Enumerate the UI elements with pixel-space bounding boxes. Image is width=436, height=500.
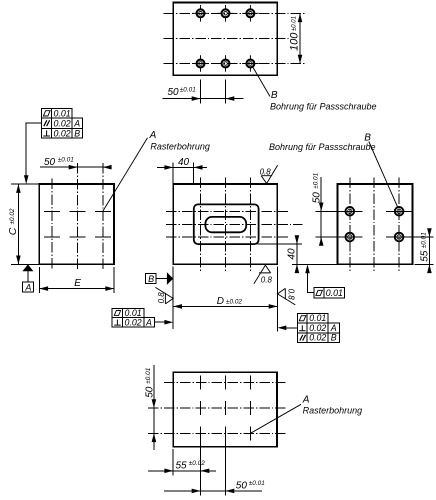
dimension 100 ±0.01 vertical <box>289 13 303 63</box>
svg-text:±0.01: ±0.01 <box>420 232 427 248</box>
svg-text:E: E <box>74 278 81 289</box>
hole top row 1 <box>192 5 209 22</box>
dimension 55 ±0.01 right <box>420 228 432 273</box>
centerline row 1 bottom view <box>164 382 286 384</box>
flatness symbol <box>114 311 120 316</box>
hole right view top right <box>395 207 404 216</box>
centerline col 2 right view <box>373 178 375 272</box>
svg-text:0.8: 0.8 <box>157 292 166 304</box>
svg-text:±0.01: ±0.01 <box>291 16 297 31</box>
centerline row 2 front <box>166 236 288 238</box>
centerline col 2 <box>77 163 79 270</box>
row 1 extension left <box>316 210 363 212</box>
dimension 40 top <box>157 157 207 183</box>
centerline middle row <box>164 37 291 39</box>
svg-text:C: C <box>7 227 19 235</box>
svg-text:Bohrung für Passschraube: Bohrung für Passschraube <box>270 101 377 111</box>
svg-text:Bohrung für Passschraube: Bohrung für Passschraube <box>269 142 376 152</box>
svg-text:A: A <box>145 317 152 327</box>
svg-text:0.02: 0.02 <box>309 323 326 333</box>
centerline bottom hole row <box>164 63 305 65</box>
perpendicularity symbol <box>299 325 306 331</box>
svg-text:0.01: 0.01 <box>309 313 326 323</box>
hole bottom row 1 <box>192 55 209 72</box>
svg-text:50: 50 <box>168 87 180 98</box>
hole bottom row 2 <box>217 55 234 72</box>
svg-text:0.02: 0.02 <box>54 128 71 138</box>
leader B right view <box>269 132 398 207</box>
centerline top hole row <box>164 12 305 14</box>
svg-text:A: A <box>73 119 80 129</box>
hole right view bottom right <box>395 233 404 242</box>
centerline row 2 bottom view <box>148 407 286 409</box>
GD&amp;T frame bottom right: flatness 0.01 / perpendicularity 0.02 A / parallelism 0.02 B <box>278 313 340 343</box>
svg-text:55: 55 <box>176 460 188 471</box>
surface finish 0.8 top right <box>260 165 278 183</box>
svg-text:A: A <box>330 323 337 333</box>
svg-text:Rasterbohrung: Rasterbohrung <box>303 405 363 415</box>
svg-text:55: 55 <box>420 250 431 262</box>
svg-text:40: 40 <box>287 248 298 260</box>
perpendicularity symbol <box>114 320 121 326</box>
svg-text:0.01: 0.01 <box>54 108 71 118</box>
flatness symbol <box>299 316 306 321</box>
top view outline <box>173 3 277 76</box>
svg-text:±0.02: ±0.02 <box>189 460 205 467</box>
row 2 segment and extension right <box>386 236 434 238</box>
extension lines below bottom view <box>172 449 174 475</box>
svg-text:±0.01: ±0.01 <box>313 172 320 188</box>
svg-text:B: B <box>331 333 337 343</box>
svg-text:0.8: 0.8 <box>286 289 295 301</box>
cross ticks row 1 <box>44 210 111 212</box>
centerline col 1 right view <box>349 178 351 272</box>
dimension 55 ±0.02 <box>148 460 216 473</box>
svg-text:0.01: 0.01 <box>326 288 343 298</box>
svg-text:D: D <box>217 296 224 307</box>
datum B <box>146 272 174 285</box>
svg-text:0.02: 0.02 <box>309 333 326 343</box>
cross ticks bottom view <box>201 376 251 390</box>
svg-text:A: A <box>302 394 310 405</box>
row 1 segment through right hole <box>386 210 412 212</box>
svg-text:50: 50 <box>144 386 155 398</box>
GD&amp;T frame bottom left: flatness 0.01 / perpendicularity 0.02 A <box>112 308 173 327</box>
svg-text:0.02: 0.02 <box>125 317 142 327</box>
svg-text:40: 40 <box>178 157 190 168</box>
leader B top view <box>253 67 377 112</box>
bottom edge extension right <box>415 263 434 265</box>
svg-text:±0.01: ±0.01 <box>180 87 196 94</box>
centerline col 3 right view <box>398 178 400 272</box>
svg-text:B: B <box>148 274 154 284</box>
hole top row 2 <box>217 5 234 22</box>
dimension 50 ±0.01 left view top <box>40 157 112 170</box>
svg-text:0.8: 0.8 <box>260 167 272 176</box>
dimension 50 ±0.01 between views <box>312 172 324 245</box>
hole right view top left <box>346 207 355 216</box>
hole bottom row 3 <box>242 55 259 72</box>
dimension 50 ±0.01 bottom <box>164 480 265 493</box>
right view outline <box>338 184 413 264</box>
centerline col 1 front <box>200 178 202 272</box>
svg-text:A: A <box>24 282 31 292</box>
centerline slot axis <box>166 223 303 225</box>
hole right view bottom left <box>346 233 355 242</box>
dimension D ±0.02 <box>173 267 277 332</box>
left view outline <box>39 184 114 264</box>
centerline col 3 front <box>249 178 251 272</box>
centerline row 1 front <box>166 210 288 212</box>
svg-text:±0.01: ±0.01 <box>249 480 265 487</box>
svg-text:50: 50 <box>44 157 56 168</box>
flatness symbol <box>43 111 50 116</box>
svg-text:0.02: 0.02 <box>54 119 71 129</box>
bottom edge extension left for flatness leader <box>292 263 338 265</box>
dimension 40 right <box>258 235 303 273</box>
svg-text:±0.02: ±0.02 <box>9 208 16 224</box>
centerline col 3 <box>102 163 104 270</box>
svg-text:±0.02: ±0.02 <box>226 298 242 305</box>
svg-text:A: A <box>149 130 157 141</box>
leader A Rasterbohrung lower <box>251 394 363 433</box>
svg-text:±0.01: ±0.01 <box>58 157 74 164</box>
surface finish 0.8 bottom right (inverted) <box>254 265 273 284</box>
row 2 extension left <box>316 236 363 238</box>
front view outline <box>173 184 277 264</box>
svg-text:B: B <box>74 128 80 138</box>
svg-text:Rasterbohrung: Rasterbohrung <box>150 142 210 152</box>
dimension E <box>39 267 114 293</box>
datum A <box>22 264 33 292</box>
surface finish 0.8 right rotated <box>278 288 296 305</box>
svg-text:50: 50 <box>312 192 323 204</box>
centerline row 3 bottom view <box>148 432 286 434</box>
cross ticks row 2 <box>44 236 111 238</box>
hole top row 3 <box>242 5 259 22</box>
centerline col 2 front <box>225 178 227 272</box>
centerline col 1 <box>51 179 53 271</box>
svg-text:±0.01: ±0.01 <box>145 367 152 383</box>
feature control frame flatness 0.01 / parallelism 0.02 A / perpendicularity 0.02 B <box>24 108 83 184</box>
parallelism symbol <box>44 120 50 126</box>
flatness frame 0.01 mid right <box>305 264 344 298</box>
dimension 50 ±0.01 bottom view left <box>144 365 156 450</box>
perpendicularity symbol <box>43 130 50 136</box>
pocket <box>194 204 259 244</box>
parallelism symbol <box>300 335 306 341</box>
dimension 50 ±0.01 top view bottom <box>163 80 244 104</box>
svg-text:100: 100 <box>289 32 301 51</box>
surface finish 0.8 left rotated <box>155 287 173 304</box>
dimension C ±0.02 <box>7 184 39 264</box>
slot <box>205 217 246 232</box>
leader to left view top face <box>26 123 41 180</box>
svg-text:B: B <box>271 90 278 101</box>
svg-text:0.8: 0.8 <box>261 275 273 284</box>
svg-text:50: 50 <box>236 480 248 491</box>
bottom view outline <box>173 372 277 447</box>
leader A Rasterbohrung upper <box>103 130 210 212</box>
